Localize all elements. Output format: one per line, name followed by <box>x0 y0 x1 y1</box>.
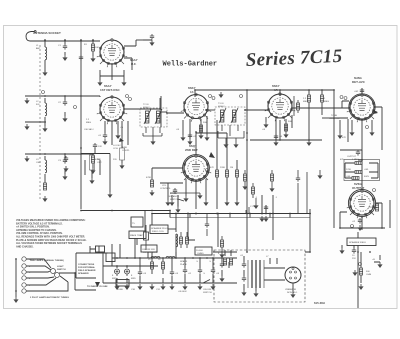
svg-text:SWITCH: SWITCH <box>57 269 66 271</box>
svg-text:FUSE: FUSE <box>117 289 123 291</box>
svg-text:470K: 470K <box>146 177 152 179</box>
svg-text:25V: 25V <box>352 258 356 260</box>
svg-text:SPARK: SPARK <box>180 260 188 263</box>
svg-text:NON-ADJ.: NON-ADJ. <box>287 291 298 294</box>
svg-text:R.F.: R.F. <box>131 62 137 66</box>
svg-text:VIBRATOR: VIBRATOR <box>285 288 296 291</box>
svg-text:CONTROL: CONTROL <box>329 118 340 120</box>
svg-text:ANTENNA SOCKET: ANTENNA SOCKET <box>33 31 61 35</box>
svg-text:WAVE: WAVE <box>130 234 137 237</box>
svg-text:OSC: OSC <box>36 162 41 164</box>
svg-text:Wells-Gardner: Wells-Gardner <box>163 61 218 69</box>
svg-text:MEG: MEG <box>86 122 91 124</box>
svg-text:PLATE: PLATE <box>180 263 187 266</box>
svg-text:MEG: MEG <box>324 101 329 103</box>
svg-text:.05 600V: .05 600V <box>178 291 187 293</box>
svg-text:FIELD COIL: FIELD COIL <box>152 231 165 233</box>
svg-text:MFD: MFD <box>112 278 117 280</box>
svg-text:CONTROL: CONTROL <box>160 188 171 190</box>
svg-text:ANT: ANT <box>36 47 41 50</box>
svg-text:MFD: MFD <box>131 278 136 280</box>
svg-text:TO INSERT 25 OHM: TO INSERT 25 OHM <box>87 286 108 288</box>
svg-text:12K: 12K <box>98 146 102 148</box>
svg-text:T2 I.F.: T2 I.F. <box>143 104 149 106</box>
svg-text:600V: 600V <box>364 176 370 178</box>
svg-text:SWITCH: SWITCH <box>170 199 179 201</box>
svg-text:455KC: 455KC <box>143 107 150 109</box>
svg-text:TRAP: TRAP <box>137 234 143 237</box>
svg-text:20-600: 20-600 <box>196 250 204 252</box>
svg-text:SWITCH: SWITCH <box>203 292 212 294</box>
svg-text:MEG: MEG <box>303 101 308 103</box>
svg-text:50K: 50K <box>97 159 101 161</box>
svg-text:DET-AVC: DET-AVC <box>352 80 366 84</box>
svg-text:455KC: 455KC <box>218 106 225 108</box>
svg-text:DISTANCE: DISTANCE <box>168 195 179 198</box>
svg-text:I.F.: I.F. <box>274 88 278 92</box>
svg-text:1 MEG: 1 MEG <box>352 159 359 161</box>
svg-text:ON-OFF SW.: ON-OFF SW. <box>142 249 155 251</box>
svg-text:ON VOL CONT: ON VOL CONT <box>143 252 159 254</box>
svg-text:FOR EXTERNAL: FOR EXTERNAL <box>78 266 96 269</box>
svg-text:DIAL LAMPS (MANUAL TUNING): DIAL LAMPS (MANUAL TUNING) <box>30 259 64 262</box>
svg-text:1M: 1M <box>230 167 233 169</box>
svg-text:FIELD SPEAKER: FIELD SPEAKER <box>78 269 96 272</box>
svg-text:47K: 47K <box>210 167 214 169</box>
svg-text:COIL: COIL <box>113 148 119 150</box>
svg-text:1ST DET-OSC: 1ST DET-OSC <box>100 88 121 92</box>
svg-text:OUTPUT: OUTPUT <box>352 186 365 190</box>
svg-text:CONNECTIONS: CONNECTIONS <box>78 264 95 266</box>
svg-text:10K: 10K <box>95 47 99 49</box>
svg-text:47K: 47K <box>342 137 346 139</box>
svg-text:220K: 220K <box>220 167 226 169</box>
svg-text:OSC ADJ: OSC ADJ <box>84 128 93 131</box>
svg-text:R.F.: R.F. <box>36 104 40 106</box>
svg-text:COUPL: COUPL <box>122 150 130 152</box>
svg-text:L4 OSC: L4 OSC <box>113 145 121 147</box>
svg-text:615-38H: 615-38H <box>314 301 325 305</box>
svg-text:OHMS: OHMS <box>197 253 204 255</box>
svg-text:SPEAKER PLUG: SPEAKER PLUG <box>151 227 168 230</box>
svg-text:TONE: TONE <box>331 115 338 117</box>
svg-text:AND CHASSIS.: AND CHASSIS. <box>16 245 34 248</box>
svg-text:SPEAKER: SPEAKER <box>78 272 89 275</box>
svg-text:OSC: OSC <box>97 162 102 164</box>
svg-text:LOCAL: LOCAL <box>170 192 178 195</box>
svg-text:270K: 270K <box>346 169 352 171</box>
svg-text:2ND DET: 2ND DET <box>185 148 198 152</box>
svg-text:C 25: C 25 <box>250 206 255 208</box>
svg-text:OHM: OHM <box>366 274 371 276</box>
svg-text:Series 7C15: Series 7C15 <box>245 46 343 71</box>
svg-text:OUTPUT: OUTPUT <box>347 156 357 158</box>
svg-text:470K: 470K <box>122 147 128 149</box>
svg-text:T3 I.F.: T3 I.F. <box>218 103 224 105</box>
svg-text:SPEAKER FIELD: SPEAKER FIELD <box>349 241 367 244</box>
svg-text:I.F.: I.F. <box>190 90 194 94</box>
svg-text:3 PILOT LAMPS AUTOMATIC TUNING: 3 PILOT LAMPS AUTOMATIC TUNING <box>30 296 69 299</box>
svg-text:ON-OFF: ON-OFF <box>203 289 212 291</box>
svg-text:LIGHT: LIGHT <box>57 266 64 268</box>
svg-text:VOL: VOL <box>162 185 167 187</box>
